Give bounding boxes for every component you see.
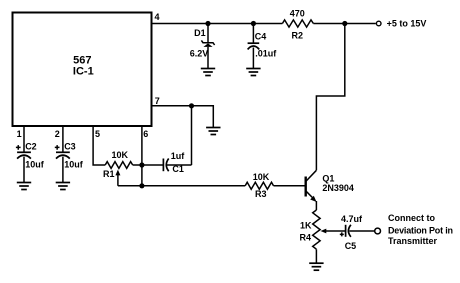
node junction pin7/C1 [189, 103, 194, 108]
wire pin 1 [23, 126, 25, 152]
capacitor C1 (1uf) [142, 151, 192, 174]
svg-text:Connect to: Connect to [388, 213, 435, 223]
ground (C3) [56, 183, 70, 190]
wire node to Q1 collector [316, 24, 344, 171]
node junction C4 [251, 21, 256, 26]
svg-text:567: 567 [73, 54, 91, 66]
resistor R2 [282, 9, 313, 41]
ground (D1) [201, 69, 215, 76]
svg-text:10uf: 10uf [25, 160, 45, 170]
svg-text:Transmitter: Transmitter [388, 236, 438, 246]
svg-text:2N3904: 2N3904 [322, 183, 354, 193]
capacitor C2 (10uf) [16, 142, 45, 183]
svg-text:1K: 1K [300, 221, 312, 231]
resistor R3 (10K) [245, 172, 273, 199]
resistor R1 (10K pot) [103, 150, 133, 179]
wire pin 6 [141, 126, 143, 186]
svg-text:6.2V: 6.2V [190, 48, 209, 58]
wire pin7 run [152, 106, 213, 127]
resistor R4 (1K pot) [300, 210, 321, 249]
ground (R4) [309, 263, 323, 270]
node junction collector feed [342, 21, 347, 26]
wire R2 to terminal [313, 23, 375, 25]
wire C1 right vertical [191, 106, 193, 165]
ground (pin 7) [206, 128, 220, 135]
svg-text:470: 470 [290, 9, 305, 19]
svg-text:1uf: 1uf [171, 151, 186, 161]
capacitor C3 (10uf) [55, 142, 84, 183]
R1 wiper arrow [115, 170, 120, 186]
svg-text:4.7uf: 4.7uf [341, 214, 363, 224]
wire pin4 to R2 [152, 23, 282, 25]
svg-text:C4: C4 [255, 32, 267, 42]
svg-text:R1: R1 [103, 169, 115, 179]
svg-text:IC-1: IC-1 [73, 66, 94, 78]
capacitor C5 (4.7uf) [340, 214, 375, 251]
svg-text:10K: 10K [253, 172, 270, 182]
wire base run [118, 185, 245, 187]
wire emitter to R4 [315, 201, 317, 210]
svg-text:10K: 10K [112, 150, 129, 160]
svg-text:+5 to 15V: +5 to 15V [387, 18, 427, 28]
svg-text:R3: R3 [255, 189, 267, 199]
wire pin 2 [62, 126, 64, 152]
svg-text:C1: C1 [172, 164, 184, 174]
svg-text:2: 2 [55, 129, 60, 139]
diode D1 (6.2V zener) [190, 24, 215, 69]
svg-text:R4: R4 [300, 232, 312, 242]
svg-text:C3: C3 [64, 142, 76, 152]
ground (C4) [246, 69, 260, 76]
op-amp U1 (IC-1 567 tone decoder box) [13, 13, 152, 127]
node junction pin6/base run [139, 183, 144, 188]
svg-text:R2: R2 [292, 31, 304, 41]
svg-text:.01uf: .01uf [255, 49, 277, 59]
node junction D1 [205, 21, 210, 26]
svg-text:1: 1 [17, 129, 22, 139]
ground (C2) [17, 183, 31, 190]
wire R1 to pin6 node [133, 164, 142, 166]
terminal +5 to 15V [376, 18, 426, 28]
svg-text:Deviation Pot in: Deviation Pot in [388, 225, 453, 235]
svg-text:4: 4 [155, 12, 160, 22]
R4 wiper arrow to C5 [321, 229, 346, 234]
svg-text:10uf: 10uf [64, 160, 84, 170]
wire R3 to base [274, 185, 305, 187]
wire R4 to ground [315, 249, 317, 262]
svg-text:D1: D1 [194, 28, 206, 38]
node junction pin6/C1/R1 [139, 162, 144, 167]
terminal to deviation pot [375, 213, 453, 246]
wire pin 5 [93, 126, 105, 165]
svg-text:7: 7 [155, 96, 160, 106]
capacitor C4 (.01uf) [248, 24, 278, 69]
svg-text:6: 6 [143, 129, 148, 139]
svg-text:C5: C5 [345, 241, 357, 251]
svg-text:Q1: Q1 [322, 173, 334, 183]
svg-text:C2: C2 [25, 142, 37, 152]
svg-text:5: 5 [95, 129, 100, 139]
transistor Q1 (2N3904 NPN) [306, 170, 354, 202]
